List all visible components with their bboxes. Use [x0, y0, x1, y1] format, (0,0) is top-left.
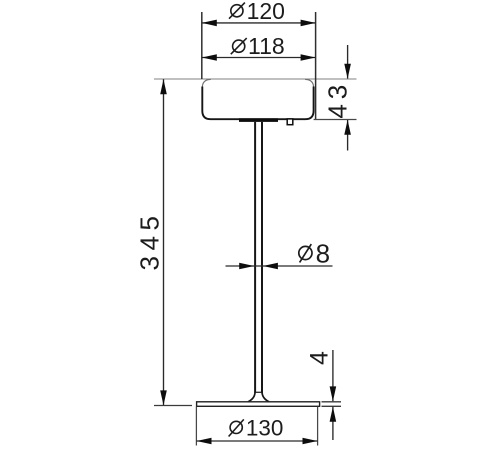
dimension line 345 [163, 79, 165, 405]
lamp holder bar [239, 118, 278, 122]
arrow dia130 right [303, 438, 318, 445]
arrow dia8 right (pointing left at pole) [263, 263, 278, 270]
pole flare left [248, 392, 255, 402]
label dia120 [229, 0, 285, 24]
svg-text:130: 130 [246, 415, 284, 440]
dimension line 43 lower segment [347, 120, 349, 151]
arrow dia118 left [202, 54, 217, 61]
arrow 43 top (pointing down) [344, 64, 351, 79]
label dia130 [229, 415, 284, 440]
extension line left for dia130 [195, 407, 197, 446]
extension line left for dia120/dia118 [201, 12, 203, 79]
arrow dia8 left (pointing right at pole) [239, 263, 254, 270]
svg-text:43: 43 [322, 80, 352, 119]
switch button [287, 119, 293, 125]
arrow 4 top (pointing down) [330, 386, 337, 401]
pole crossbar at flare start [254, 391, 263, 393]
arrow 4 bottom (pointing up) [330, 407, 337, 422]
arrow 43 bottom (pointing up) [344, 120, 351, 135]
lamp shade top corners (thin) [202, 79, 313, 87]
lamp shade body sides and bottom [202, 87, 313, 120]
extension line right for dia130 [317, 407, 319, 446]
svg-text:8: 8 [316, 238, 330, 268]
dimension line dia120 [202, 22, 316, 24]
pole flare right [262, 392, 269, 402]
dimension line 4 lower segment [332, 407, 334, 440]
svg-text:4: 4 [306, 351, 334, 365]
extension line top (shade top level) [154, 78, 357, 80]
extension line 4-dim upper (base top level) [322, 401, 342, 403]
extension line bottom-left for 345 (base bottom level) [154, 405, 192, 407]
arrow dia130 left [197, 438, 212, 445]
svg-text:118: 118 [248, 33, 285, 59]
svg-text:345: 345 [134, 211, 164, 271]
arrow dia120 left [202, 20, 217, 27]
base plate [197, 402, 320, 407]
dimension line 43 upper segment [347, 45, 349, 79]
extension line 4-dim lower (base bottom level) [322, 405, 342, 407]
pole right line [261, 122, 263, 392]
pole left line [254, 122, 256, 392]
arrow 345 top (pointing up) [160, 79, 167, 94]
dimension line 4 upper segment [332, 350, 334, 401]
label dia118 [231, 33, 285, 59]
dimension line dia130 [196, 440, 317, 442]
arrow dia118 right [301, 54, 316, 61]
svg-text:120: 120 [247, 0, 285, 24]
arrow dia120 right [301, 20, 316, 27]
arrow 345 bottom (pointing down) [160, 390, 167, 405]
dimension line dia8 [226, 265, 333, 267]
label dia8 [299, 238, 330, 268]
dimension line dia118 [202, 57, 316, 59]
extension line right for dia120/dia118 [315, 12, 317, 119]
extension line right for 43 dim (shade bottom level) [314, 119, 357, 121]
